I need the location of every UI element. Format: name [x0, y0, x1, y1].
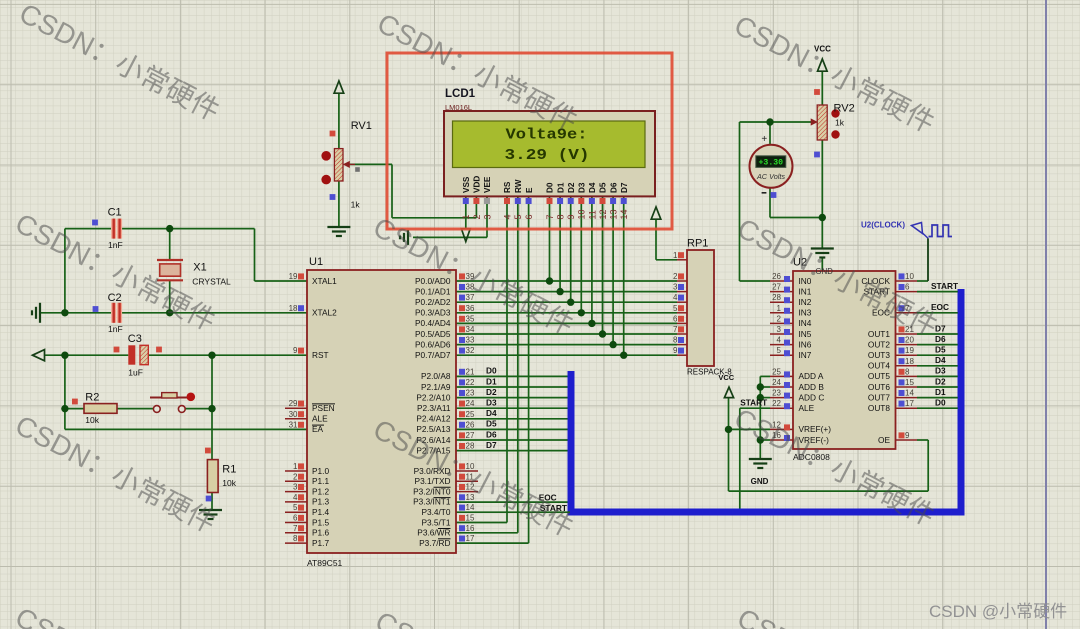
svg-text:OE: OE [878, 435, 890, 445]
svg-text:P1.0: P1.0 [312, 466, 329, 476]
svg-text:D2: D2 [567, 182, 576, 193]
svg-text:IN5: IN5 [799, 329, 812, 339]
svg-text:RV1: RV1 [351, 120, 372, 132]
svg-text:+3.30: +3.30 [759, 159, 784, 168]
svg-text:OUT7: OUT7 [868, 392, 891, 402]
svg-text:P1.3: P1.3 [312, 497, 329, 507]
svg-text:1: 1 [293, 462, 298, 471]
svg-text:2: 2 [293, 472, 298, 481]
svg-text:10: 10 [577, 209, 587, 219]
svg-text:28: 28 [772, 293, 781, 302]
svg-text:D3: D3 [486, 398, 497, 408]
svg-text:E: E [525, 187, 534, 193]
svg-text:VSS: VSS [462, 176, 471, 193]
svg-text:D3: D3 [578, 182, 587, 193]
svg-text:P2.1/A9: P2.1/A9 [421, 382, 451, 392]
svg-text:1: 1 [461, 214, 471, 219]
svg-text:5: 5 [513, 214, 523, 219]
svg-text:OUT6: OUT6 [868, 382, 891, 392]
svg-text:EA: EA [312, 424, 324, 434]
svg-text:9: 9 [566, 214, 576, 219]
svg-text:P1.7: P1.7 [312, 538, 329, 548]
svg-text:D1: D1 [935, 387, 946, 397]
svg-text:P3.4/T0: P3.4/T0 [421, 507, 450, 517]
svg-text:P1.5: P1.5 [312, 517, 329, 527]
svg-text:25: 25 [772, 367, 781, 376]
svg-text:D6: D6 [609, 182, 618, 193]
svg-text:VCC: VCC [718, 373, 734, 382]
svg-text:OUT1: OUT1 [868, 329, 891, 339]
svg-text:P2.0/A8: P2.0/A8 [421, 371, 451, 381]
svg-text:21: 21 [466, 367, 475, 376]
svg-text:IN7: IN7 [799, 350, 812, 360]
svg-text:OUT4: OUT4 [868, 361, 891, 371]
svg-text:D1: D1 [486, 376, 497, 386]
svg-text:5: 5 [293, 503, 298, 512]
svg-text:7: 7 [293, 524, 298, 533]
svg-text:D6: D6 [486, 429, 497, 439]
svg-text:D2: D2 [935, 376, 946, 386]
svg-text:D4: D4 [935, 355, 946, 365]
svg-text:9: 9 [905, 431, 910, 440]
svg-text:IN1: IN1 [799, 286, 812, 296]
svg-text:8: 8 [293, 534, 298, 543]
svg-text:29: 29 [289, 399, 298, 408]
svg-text:VDD: VDD [473, 176, 482, 193]
svg-text:LCD1: LCD1 [445, 88, 476, 100]
svg-text:2: 2 [673, 272, 678, 281]
svg-text:22: 22 [772, 399, 781, 408]
svg-text:D5: D5 [935, 345, 946, 355]
svg-text:R2: R2 [85, 392, 99, 404]
svg-text:28: 28 [466, 442, 475, 451]
svg-text:D7: D7 [486, 440, 497, 450]
svg-text:C2: C2 [108, 292, 122, 304]
svg-text:Volta9e:: Volta9e: [506, 128, 588, 144]
svg-text:5: 5 [673, 304, 678, 313]
svg-text:10k: 10k [85, 415, 99, 425]
svg-text:ADD A: ADD A [799, 371, 824, 381]
svg-text:OUT2: OUT2 [868, 339, 891, 349]
svg-text:RS: RS [503, 181, 512, 193]
svg-text:1nF: 1nF [108, 240, 123, 250]
svg-text:RW: RW [514, 179, 523, 193]
svg-text:3: 3 [482, 214, 492, 219]
svg-text:ADD C: ADD C [799, 392, 825, 402]
svg-text:26: 26 [772, 272, 781, 281]
svg-text:14: 14 [619, 209, 629, 219]
svg-text:4: 4 [293, 493, 298, 502]
svg-text:D6: D6 [935, 334, 946, 344]
svg-text:RV2: RV2 [834, 103, 855, 115]
svg-text:4: 4 [673, 293, 678, 302]
svg-text:1: 1 [777, 304, 782, 313]
svg-text:IN3: IN3 [799, 308, 812, 318]
svg-text:XTAL1: XTAL1 [312, 276, 337, 286]
svg-text:3: 3 [777, 325, 782, 334]
svg-text:11: 11 [587, 210, 597, 219]
svg-text:25: 25 [466, 410, 475, 419]
svg-text:23: 23 [772, 389, 781, 398]
svg-text:36: 36 [466, 304, 475, 313]
svg-text:D0: D0 [546, 182, 555, 193]
svg-text:GND: GND [751, 477, 769, 486]
svg-text:31: 31 [289, 420, 298, 429]
svg-text:P1.2: P1.2 [312, 486, 329, 496]
svg-text:6: 6 [293, 514, 298, 523]
svg-text:4: 4 [777, 336, 782, 345]
svg-text:D3: D3 [935, 366, 946, 376]
svg-text:1k: 1k [351, 200, 361, 210]
svg-text:D0: D0 [486, 366, 497, 376]
svg-text:35: 35 [466, 314, 475, 323]
svg-text:AT89C51: AT89C51 [307, 558, 343, 568]
svg-text:+: + [761, 134, 767, 145]
svg-text:OUT5: OUT5 [868, 371, 891, 381]
svg-text:3: 3 [673, 283, 678, 292]
svg-text:12: 12 [598, 209, 608, 219]
svg-text:IN4: IN4 [799, 318, 812, 328]
svg-text:32: 32 [466, 346, 475, 355]
svg-text:3: 3 [293, 483, 298, 492]
svg-text:OUT3: OUT3 [868, 350, 891, 360]
svg-text:D1: D1 [556, 182, 565, 193]
svg-text:P1.4: P1.4 [312, 507, 329, 517]
svg-text:30: 30 [289, 410, 298, 419]
svg-text:RST: RST [312, 350, 329, 360]
svg-text:18: 18 [289, 304, 298, 313]
svg-text:ALE: ALE [799, 403, 815, 413]
svg-text:19: 19 [905, 346, 914, 355]
svg-text:4: 4 [502, 214, 512, 219]
svg-text:17: 17 [466, 534, 475, 543]
svg-text:2: 2 [472, 214, 482, 219]
svg-text:P3.5/T1: P3.5/T1 [421, 517, 450, 527]
svg-text:C1: C1 [108, 207, 122, 219]
svg-text:P3.3/INT1: P3.3/INT1 [413, 497, 451, 507]
svg-text:17: 17 [905, 399, 914, 408]
svg-text:OUT8: OUT8 [868, 403, 891, 413]
svg-text:7: 7 [673, 325, 678, 334]
svg-text:34: 34 [466, 325, 475, 334]
svg-text:9: 9 [293, 346, 298, 355]
svg-text:P0.2/AD2: P0.2/AD2 [415, 297, 451, 307]
svg-text:XTAL2: XTAL2 [312, 308, 337, 318]
svg-text:IN2: IN2 [799, 297, 812, 307]
svg-text:20: 20 [905, 336, 914, 345]
svg-text:U2(CLOCK): U2(CLOCK) [861, 221, 905, 230]
svg-text:10: 10 [905, 272, 914, 281]
svg-text:P0.6/AD6: P0.6/AD6 [415, 339, 451, 349]
svg-text:16: 16 [466, 524, 475, 533]
svg-text:AC Volts: AC Volts [756, 172, 785, 181]
svg-text:P0.5/AD5: P0.5/AD5 [415, 329, 451, 339]
svg-text:U1: U1 [309, 256, 323, 268]
svg-text:24: 24 [772, 378, 781, 387]
svg-text:START: START [931, 281, 958, 291]
svg-text:6: 6 [673, 314, 678, 323]
svg-text:PSEN: PSEN [312, 403, 335, 413]
svg-text:1uF: 1uF [128, 368, 143, 378]
svg-text:13: 13 [609, 209, 619, 219]
svg-text:D5: D5 [486, 419, 497, 429]
svg-text:P2.4/A12: P2.4/A12 [416, 414, 451, 424]
svg-text:X1: X1 [193, 262, 206, 274]
svg-text:CRYSTAL: CRYSTAL [192, 277, 231, 287]
svg-text:R1: R1 [222, 464, 236, 476]
svg-text:IN6: IN6 [799, 339, 812, 349]
svg-text:33: 33 [466, 336, 475, 345]
svg-text:1: 1 [673, 251, 678, 260]
svg-text:RP1: RP1 [687, 238, 708, 250]
svg-text:P0.7/AD7: P0.7/AD7 [415, 350, 451, 360]
svg-text:P1.6: P1.6 [312, 528, 329, 538]
svg-text:27: 27 [772, 283, 781, 292]
svg-text:8: 8 [556, 214, 566, 219]
svg-text:P0.3/AD3: P0.3/AD3 [415, 308, 451, 318]
svg-text:26: 26 [466, 420, 475, 429]
svg-text:6: 6 [524, 214, 534, 219]
svg-text:D7: D7 [620, 182, 629, 193]
svg-text:C3: C3 [128, 333, 142, 345]
svg-text:2: 2 [777, 314, 782, 323]
svg-text:22: 22 [466, 378, 475, 387]
svg-text:D4: D4 [486, 408, 497, 418]
svg-text:23: 23 [466, 389, 475, 398]
svg-text:14: 14 [466, 503, 475, 512]
svg-text:P3.7/RD: P3.7/RD [419, 538, 450, 548]
svg-text:5: 5 [777, 346, 782, 355]
svg-text:P3.2/INT0: P3.2/INT0 [413, 486, 451, 496]
svg-text:D5: D5 [599, 182, 608, 193]
svg-text:8: 8 [905, 367, 910, 376]
svg-text:9: 9 [673, 346, 678, 355]
svg-text:P2.2/A10: P2.2/A10 [416, 392, 451, 402]
svg-text:D0: D0 [935, 398, 946, 408]
svg-text:LM016L: LM016L [445, 103, 472, 112]
svg-text:VEE: VEE [483, 176, 492, 193]
svg-text:P3.6/WR: P3.6/WR [417, 528, 450, 538]
svg-text:D4: D4 [588, 182, 597, 193]
svg-text:7: 7 [545, 214, 555, 219]
svg-text:ALE: ALE [312, 414, 328, 424]
svg-text:15: 15 [905, 378, 914, 387]
svg-text:P0.1/AD1: P0.1/AD1 [415, 286, 451, 296]
svg-text:27: 27 [466, 431, 475, 440]
svg-text:24: 24 [466, 399, 475, 408]
svg-text:15: 15 [466, 514, 475, 523]
svg-text:P1.1: P1.1 [312, 476, 329, 486]
svg-text:CSDN @小常硬件: CSDN @小常硬件 [929, 602, 1067, 621]
svg-text:ADD B: ADD B [799, 382, 825, 392]
svg-text:18: 18 [905, 357, 914, 366]
svg-text:P2.3/A11: P2.3/A11 [417, 403, 451, 413]
svg-text:D2: D2 [486, 387, 497, 397]
svg-text:37: 37 [466, 293, 475, 302]
svg-text:P0.4/AD4: P0.4/AD4 [415, 318, 451, 328]
svg-text:14: 14 [905, 389, 914, 398]
svg-text:10k: 10k [222, 478, 236, 488]
svg-text:8: 8 [673, 336, 678, 345]
svg-text:3.29 (V): 3.29 (V) [505, 148, 590, 164]
svg-text:6: 6 [905, 283, 910, 292]
svg-text:1nF: 1nF [108, 324, 123, 334]
svg-text:19: 19 [289, 272, 298, 281]
svg-text:1k: 1k [835, 118, 845, 128]
